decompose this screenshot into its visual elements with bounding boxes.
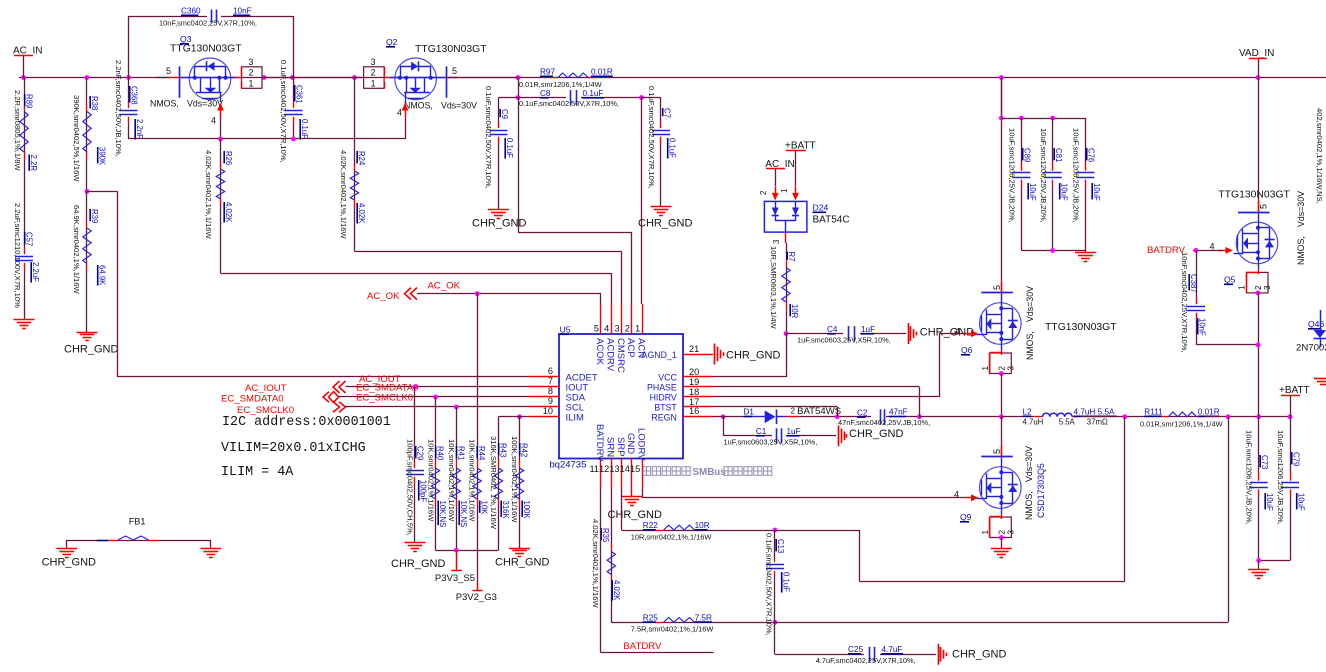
svg-text:NMOS,: NMOS,	[1025, 331, 1035, 360]
capacitor C25	[775, 654, 864, 656]
svg-text:4.02K,smr0402,1%,1/16W: 4.02K,smr0402,1%,1/16W	[204, 150, 213, 239]
svg-text:1: 1	[981, 366, 990, 371]
svg-text:390K,smr0402,5%,1/16W: 390K,smr0402,5%,1/16W	[72, 95, 81, 182]
svg-text:19: 19	[689, 377, 699, 387]
svg-text:2: 2	[997, 530, 1006, 535]
svg-text:VILIM=20x0.01xICHG: VILIM=20x0.01xICHG	[221, 441, 366, 456]
ground R39 CHR_GND	[77, 332, 98, 334]
capacitor C8	[570, 90, 572, 105]
svg-text:R22: R22	[643, 521, 658, 530]
wire C13 to C25 row	[774, 622, 776, 654]
svg-text:2: 2	[791, 406, 796, 415]
power P3V3_S5	[456, 550, 458, 562]
svg-text:3: 3	[1263, 285, 1272, 290]
svg-text:R41: R41	[456, 446, 465, 460]
svg-text:2: 2	[997, 366, 1006, 371]
capacitor C368	[128, 78, 130, 102]
svg-text:1: 1	[371, 78, 376, 88]
svg-text:1: 1	[1238, 285, 1247, 290]
resistor R42	[517, 414, 522, 419]
svg-text:R39: R39	[90, 209, 99, 223]
resistor R26	[220, 139, 222, 161]
svg-text:BATDRV: BATDRV	[594, 424, 605, 462]
svg-text:2.2R: 2.2R	[29, 155, 38, 172]
svg-text:SRP: SRP	[615, 437, 626, 457]
node C8 right	[639, 95, 644, 100]
svg-text:10K,smr0402,1%,1/16W: 10K,smr0402,1%,1/16W	[427, 439, 436, 522]
svg-text:4.02K: 4.02K	[224, 202, 233, 223]
wire BTST node	[799, 416, 871, 418]
svg-text:64.9K: 64.9K	[98, 265, 107, 286]
pin U5-14 GND	[631, 459, 633, 489]
svg-text:R97: R97	[540, 68, 555, 77]
svg-text:100K: 100K	[522, 501, 531, 520]
node R24 tap	[352, 75, 357, 80]
svg-text:AC_IOUT: AC_IOUT	[245, 383, 287, 394]
svg-text:Vds=30V: Vds=30V	[1025, 286, 1035, 322]
svg-text:FB1: FB1	[129, 517, 146, 527]
transistor Q6 TTG130N03GT	[1001, 78, 1003, 282]
svg-text:10R,SMR0603,1%,1/4W: 10R,SMR0603,1%,1/4W	[769, 246, 778, 330]
pin U5-9 SCL	[529, 406, 559, 408]
svg-text:CHR_GND: CHR_GND	[920, 327, 974, 339]
svg-text:EC_SMCLK0: EC_SMCLK0	[356, 393, 413, 404]
svg-text:0.01R,smr1206,1%,1/4W: 0.01R,smr1206,1%,1/4W	[1140, 420, 1223, 429]
svg-text:10uF,smc1206,25V,JB,20%,: 10uF,smc1206,25V,JB,20%,	[1039, 128, 1048, 223]
svg-text:EC_SMDATA0: EC_SMDATA0	[221, 394, 284, 405]
pin D24-2 arrow	[775, 186, 777, 195]
resistor R44	[477, 294, 479, 460]
svg-text:10K,NS: 10K,NS	[438, 501, 447, 528]
pin U5-1 ACN	[642, 304, 644, 334]
svg-text:64.9K,smr0402,1%,1/16W: 64.9K,smr0402,1%,1/16W	[72, 205, 81, 294]
svg-text:0.1uF,smc0402,50V,X7R,10%,: 0.1uF,smc0402,50V,X7R,10%,	[647, 86, 656, 189]
svg-text:CMSRC: CMSRC	[615, 338, 626, 373]
svg-text:3: 3	[1006, 366, 1015, 371]
svg-text:10uF,smc1206,25V,JB,20%,: 10uF,smc1206,25V,JB,20%,	[1276, 430, 1285, 525]
svg-text:TTG130N03GT: TTG130N03GT	[1045, 322, 1117, 333]
capacitor C81	[1052, 118, 1054, 163]
node SW junction	[999, 414, 1004, 419]
capacitor C76	[1085, 118, 1087, 163]
svg-text:11: 11	[589, 464, 599, 474]
svg-text:ILIM = 4A: ILIM = 4A	[221, 465, 294, 480]
svg-text:2: 2	[625, 324, 630, 334]
capacitor C79	[1290, 417, 1292, 472]
pin U5-6 ACDET	[529, 376, 559, 378]
svg-text:4: 4	[211, 116, 216, 126]
svg-text:12: 12	[599, 464, 609, 474]
inductor L2	[1034, 416, 1043, 418]
svg-text:C2: C2	[857, 408, 868, 417]
svg-text:10nF: 10nF	[233, 7, 252, 16]
pin U5-10 ILIM	[529, 416, 559, 418]
svg-text:2N7002: 2N7002	[1296, 343, 1326, 354]
svg-text:10nF,smc0402,25V,X7R,10%,: 10nF,smc0402,25V,X7R,10%,	[1180, 252, 1189, 353]
svg-text:C57: C57	[25, 232, 34, 246]
svg-text:4.02K,smr0402,1%,1/16W: 4.02K,smr0402,1%,1/16W	[591, 519, 600, 608]
wire C73/C79 bottom	[1259, 560, 1290, 562]
svg-text:10uF: 10uF	[1028, 183, 1037, 201]
svg-text:4: 4	[955, 327, 960, 337]
svg-text:10uF: 10uF	[1092, 183, 1101, 201]
svg-text:PHASE: PHASE	[647, 383, 677, 393]
svg-text:ILIM: ILIM	[566, 413, 585, 424]
wire HIDRV to Q6 gate	[713, 396, 939, 398]
node P3V3 tap	[454, 548, 459, 553]
node R22/C13	[773, 528, 778, 533]
svg-text:2: 2	[249, 67, 254, 77]
wire CMSRC to U5 pin3	[355, 251, 622, 253]
pin box Q5 pins 1/2/3	[1247, 272, 1269, 293]
svg-text:VCC: VCC	[658, 373, 677, 383]
pin U5-19 PHASE	[683, 386, 713, 388]
svg-text:BAT54C: BAT54C	[813, 215, 850, 226]
svg-text:CHR_GND: CHR_GND	[391, 558, 445, 570]
node C81 top	[1050, 116, 1055, 121]
svg-text:10uF,smc1206,25V,JB,20%,: 10uF,smc1206,25V,JB,20%,	[1072, 128, 1081, 223]
svg-text:7: 7	[548, 376, 553, 386]
pin D24-1 arrow	[795, 186, 797, 195]
svg-text:37mΩ: 37mΩ	[1087, 418, 1108, 427]
svg-text:C89: C89	[1023, 148, 1032, 162]
svg-text:100pF,smc0402,50V,CH,5%,: 100pF,smc0402,50V,CH,5%,	[406, 439, 415, 536]
node C81 bottom	[1050, 248, 1055, 253]
svg-text:SRN: SRN	[605, 437, 616, 457]
wire AC_OK to U5 pin5	[417, 293, 601, 295]
svg-text:2.2nF,smc0402,50V,JB,10%,: 2.2nF,smc0402,50V,JB,10%,	[114, 60, 123, 157]
svg-text:D24: D24	[813, 203, 829, 213]
ground fragment right edge	[1314, 378, 1326, 380]
svg-text:GND: GND	[625, 433, 636, 454]
svg-text:CHR_GND: CHR_GND	[608, 509, 662, 521]
capacitor C360	[129, 16, 208, 18]
svg-text:Q5: Q5	[1224, 275, 1236, 285]
svg-text:100K,smr0402,1%,1/16W: 100K,smr0402,1%,1/16W	[510, 436, 519, 523]
wire PHASE from pin19	[713, 386, 919, 388]
label chinese note	[642, 467, 650, 476]
capacitor C73	[1258, 417, 1260, 472]
wire Q2 gate stub	[446, 77, 518, 79]
IC U5 bq24735	[559, 334, 683, 459]
resistor R22	[621, 489, 623, 531]
node C73 bottom	[1256, 558, 1261, 563]
svg-text:0.01R: 0.01R	[591, 68, 613, 77]
svg-text:bq24735: bq24735	[549, 460, 586, 471]
svg-text:Q2: Q2	[386, 37, 398, 47]
wire SW node	[919, 416, 1001, 418]
svg-text:10R,smr0402,1%,1/16W: 10R,smr0402,1%,1/16W	[631, 533, 712, 542]
svg-text:D1: D1	[744, 408, 755, 417]
resistor R24	[354, 78, 356, 163]
resistor R41	[454, 405, 459, 410]
svg-text:10nF: 10nF	[1198, 318, 1207, 336]
svg-text:P3V2_G3: P3V2_G3	[456, 592, 497, 603]
svg-text:2.2nF: 2.2nF	[135, 119, 144, 139]
node R38 tap	[85, 75, 90, 80]
transistor Q3 TTG130N03GT	[189, 58, 231, 100]
svg-text:10K: 10K	[480, 501, 489, 516]
svg-text:100pF: 100pF	[419, 480, 428, 502]
svg-text:C9: C9	[500, 109, 509, 119]
svg-text:2.2uF,smc1210,100V,X7R,10%: 2.2uF,smc1210,100V,X7R,10%	[13, 203, 22, 308]
svg-text:0.1uF: 0.1uF	[505, 138, 514, 158]
wire SCL row	[346, 406, 530, 408]
wire LODRV to Q9 gate	[642, 489, 644, 498]
power P3V2_G3	[477, 582, 479, 591]
svg-text:4: 4	[604, 324, 609, 334]
svg-text:ACOK: ACOK	[594, 338, 605, 366]
ground C1 CHR_GND	[838, 425, 840, 446]
svg-text:L2: L2	[1023, 408, 1033, 417]
svg-text:4.7uF,smc0402,25V,X7R,10%,: 4.7uF,smc0402,25V,X7R,10%,	[816, 656, 916, 665]
svg-text:0.1uF,smc0402,50V,X7R,10%,: 0.1uF,smc0402,50V,X7R,10%,	[519, 99, 619, 108]
svg-text:316K,SMR0402, 1%,1/16W: 316K,SMR0402, 1%,1/16W	[489, 436, 498, 530]
svg-text:Vds=30V: Vds=30V	[1296, 191, 1306, 227]
wire BATDRV stub to Q5 gate	[1193, 250, 1221, 252]
svg-text:0.1uF,smc0402,50V,X7R,10%,: 0.1uF,smc0402,50V,X7R,10%,	[484, 86, 493, 189]
svg-text:1: 1	[249, 78, 254, 88]
node C368/C360 tap	[126, 75, 131, 80]
ground FB1 left CHR_GND	[66, 540, 68, 549]
svg-text:R7: R7	[787, 252, 796, 262]
svg-text:R25: R25	[643, 613, 658, 622]
resistor R38	[86, 78, 88, 104]
wire Q3 gate stub	[156, 77, 168, 79]
pin box Q9 pins 1/2/3	[990, 517, 1012, 538]
node SRN tap	[1226, 414, 1231, 419]
svg-text:316K: 316K	[501, 501, 510, 520]
svg-text:R42: R42	[520, 443, 529, 457]
wire gate rail	[129, 138, 406, 140]
svg-text:R43: R43	[499, 443, 508, 457]
capacitor C57	[24, 248, 26, 254]
node Q2 gate-side junction	[516, 75, 521, 80]
svg-text:4.02K: 4.02K	[357, 203, 366, 224]
svg-text:0.1uF: 0.1uF	[668, 138, 677, 158]
svg-text:0.01R,smr1206,1%,1/4W: 0.01R,smr1206,1%,1/4W	[519, 80, 602, 89]
svg-text:C73: C73	[1260, 455, 1269, 469]
diode D1 BAT54WS	[723, 416, 750, 418]
wire P3V3 rail	[436, 550, 499, 552]
svg-text:2.2R,smr0805,1%,1/8W: 2.2R,smr0805,1%,1/8W	[13, 90, 22, 171]
svg-text:I2C address:0x0001001: I2C address:0x0001001	[222, 415, 391, 430]
svg-text:3: 3	[371, 57, 376, 67]
node R38/R39 divider tap	[85, 189, 90, 194]
node L2/R111/SRP	[1122, 414, 1127, 419]
svg-text:NMOS,: NMOS,	[1296, 236, 1306, 265]
svg-text:SMBus: SMBus	[693, 467, 727, 478]
svg-text:10uF: 10uF	[1060, 183, 1069, 201]
pin U5-7 IOUT	[529, 386, 559, 388]
resistor R97	[549, 77, 558, 79]
node AC_OK / R44	[475, 291, 480, 296]
svg-text:4.7uH 5.5A: 4.7uH 5.5A	[1074, 408, 1116, 417]
svg-text:47nF,smc0402,25V,JB,10%,: 47nF,smc0402,25V,JB,10%,	[838, 418, 930, 427]
svg-text:10K,NS: 10K,NS	[459, 501, 468, 528]
svg-text:ACDRV: ACDRV	[605, 338, 616, 372]
svg-text:13: 13	[609, 464, 619, 474]
svg-text:5: 5	[452, 66, 457, 76]
wire BATDRV from pin11	[600, 489, 602, 653]
pin U5-12 SRN	[611, 459, 613, 489]
wire ACP routing	[518, 98, 520, 233]
wire SRP sense to L2 node	[775, 530, 859, 532]
pin U5-15 LODRV	[642, 459, 644, 489]
svg-text:10K,smr0402,1%,1/16W: 10K,smr0402,1%,1/16W	[468, 439, 477, 522]
svg-text:BATDRV: BATDRV	[623, 641, 662, 652]
svg-text:C79: C79	[1292, 452, 1301, 466]
node C361 tap	[290, 75, 295, 80]
svg-text:14: 14	[620, 464, 630, 474]
svg-text:R26: R26	[224, 151, 233, 165]
svg-text:R111: R111	[1144, 408, 1163, 417]
svg-text:TTG130N03GT: TTG130N03GT	[415, 44, 487, 55]
wire C387 to Q5 source	[1196, 344, 1258, 346]
svg-text:15: 15	[630, 464, 640, 474]
svg-text:5: 5	[166, 66, 171, 76]
svg-text:0.1uF,smc0402,50V,X7R,10%,: 0.1uF,smc0402,50V,X7R,10%,	[765, 533, 774, 636]
svg-text:1uF: 1uF	[861, 325, 875, 334]
svg-text:10uF: 10uF	[1265, 493, 1274, 511]
wire ILIM row	[498, 416, 529, 418]
svg-text:R38: R38	[90, 96, 99, 110]
svg-text:0.1uF,smc0402,50V,X7R,10%,: 0.1uF,smc0402,50V,X7R,10%,	[279, 60, 288, 163]
svg-text:10K,smr0402,1%,1/16W: 10K,smr0402,1%,1/16W	[447, 439, 456, 522]
svg-text:6: 6	[548, 366, 553, 376]
svg-text:C361: C361	[295, 85, 304, 104]
svg-text:Vds=30V: Vds=30V	[441, 101, 477, 111]
capacitor C89	[1021, 118, 1023, 163]
node Q5 source/C387	[1256, 343, 1261, 348]
capacitor C2	[880, 409, 882, 424]
resistor R39	[86, 191, 88, 221]
wire Q5 source down	[1258, 293, 1260, 417]
svg-text:10uF,smc1206,25V,JB,20%,: 10uF,smc1206,25V,JB,20%,	[1008, 128, 1017, 223]
svg-text:3: 3	[1006, 530, 1015, 535]
wire ACDRV to U5 pin4	[221, 273, 612, 275]
pin D24-3	[785, 232, 787, 243]
node +BATT tap	[1288, 414, 1293, 419]
wire VCC	[786, 334, 788, 377]
capacitor C13	[774, 530, 776, 558]
pin U5-2 ACP	[631, 304, 633, 334]
pin U5-4 ACDRV	[611, 304, 613, 334]
ground FB1 right	[210, 540, 212, 549]
capacitor C361	[293, 78, 295, 102]
capacitor C387	[1196, 250, 1198, 298]
svg-text:4.02K: 4.02K	[612, 580, 621, 601]
svg-text:4.7uH: 4.7uH	[1023, 418, 1044, 427]
svg-text:1uF,smc0603,25V,X5R,10%,: 1uF,smc0603,25V,X5R,10%,	[797, 336, 891, 345]
svg-text:ACP: ACP	[625, 338, 636, 358]
svg-text:390K: 390K	[98, 147, 107, 166]
svg-text:P3V3_S5: P3V3_S5	[435, 573, 475, 584]
svg-text:C13: C13	[776, 539, 785, 553]
pin U5-13 SRP	[621, 459, 623, 489]
resistor R7	[784, 242, 787, 244]
pin U5-11 BATDRV	[600, 459, 602, 489]
svg-text:Q46: Q46	[1308, 319, 1324, 329]
wire ACN routing	[641, 98, 643, 305]
node Q6 source	[999, 371, 1004, 376]
node C89 top	[1019, 116, 1024, 121]
svg-text:AC_OK: AC_OK	[428, 281, 461, 292]
svg-text:1uF,smc0603,25V,X5R,10%,: 1uF,smc0603,25V,X5R,10%,	[724, 438, 818, 447]
ground C9 CHR_GND	[488, 209, 509, 211]
svg-text:CHR_GND: CHR_GND	[726, 350, 780, 362]
svg-text:C368: C368	[130, 86, 139, 105]
svg-text:Vds=30V: Vds=30V	[187, 99, 223, 109]
svg-text:Q3: Q3	[180, 34, 192, 44]
svg-text:402,smr0402,1%,1/16W,NS,: 402,smr0402,1%,1/16W,NS,	[1315, 108, 1324, 204]
svg-text:C4: C4	[827, 325, 838, 334]
svg-text:10: 10	[543, 406, 553, 416]
svg-text:0.1uF: 0.1uF	[782, 572, 791, 592]
svg-text:10R: 10R	[695, 521, 710, 530]
svg-text:10uF: 10uF	[1297, 493, 1306, 511]
svg-text:2: 2	[759, 190, 768, 195]
ground C4 CHR_GND	[908, 323, 910, 344]
ground cap bank	[1085, 251, 1087, 254]
svg-text:C8: C8	[540, 89, 551, 98]
pin box Q2 pins 3/2/1	[364, 67, 385, 89]
node VAD_IN tap	[1256, 75, 1261, 80]
transistor Q9 CSD17303Q5	[1001, 417, 1003, 446]
resistor R111	[1160, 416, 1168, 418]
svg-text:C1: C1	[756, 427, 767, 436]
svg-text:BTST: BTST	[654, 403, 677, 413]
svg-text:0.01R: 0.01R	[1198, 408, 1220, 417]
svg-text:CHR_GND: CHR_GND	[849, 428, 903, 440]
svg-text:18: 18	[689, 387, 699, 397]
node BTST join	[835, 414, 840, 419]
wire SW to L2	[1001, 416, 1034, 418]
ground R42 CHR_GND	[509, 548, 530, 550]
pin U5-20 VCC	[683, 376, 713, 378]
svg-text:R24: R24	[357, 151, 366, 166]
pin U5-8 SDA	[529, 396, 559, 398]
ground AGND CHR_GND	[714, 344, 716, 365]
svg-text:5: 5	[1259, 204, 1269, 209]
node Q6 drain tap	[999, 75, 1004, 80]
svg-text:CSD17303Q5: CSD17303Q5	[1036, 463, 1046, 518]
transistor Q2 TTG130N03GT	[395, 58, 437, 100]
wire L2 to R111	[1081, 416, 1161, 418]
wire cap bank feed	[1001, 78, 1003, 118]
svg-text:2: 2	[371, 67, 376, 77]
node R25/C13	[773, 620, 778, 625]
node AC_IN junction	[21, 75, 26, 80]
capacitor C9	[498, 97, 518, 99]
ground C25 CHR_GND	[938, 644, 940, 665]
diode D24 BAT54C	[764, 201, 807, 232]
capacitor C1	[723, 417, 725, 436]
svg-text:NMOS,: NMOS,	[150, 99, 179, 109]
svg-text:8: 8	[548, 386, 553, 396]
node VCC/R7/C4	[784, 331, 789, 336]
svg-text:AC_OK: AC_OK	[367, 291, 400, 302]
svg-text:Q6: Q6	[961, 345, 973, 355]
ground C57 CHR_GND	[14, 319, 35, 321]
resistor R25	[611, 622, 655, 624]
wire cap bank bottom	[1021, 250, 1085, 252]
node C387 top	[1194, 248, 1199, 253]
svg-text:2.2uF: 2.2uF	[31, 262, 40, 282]
wire BTST from pin17	[713, 406, 837, 408]
svg-text:5.5A: 5.5A	[1059, 418, 1076, 427]
resistor R40	[433, 395, 438, 400]
